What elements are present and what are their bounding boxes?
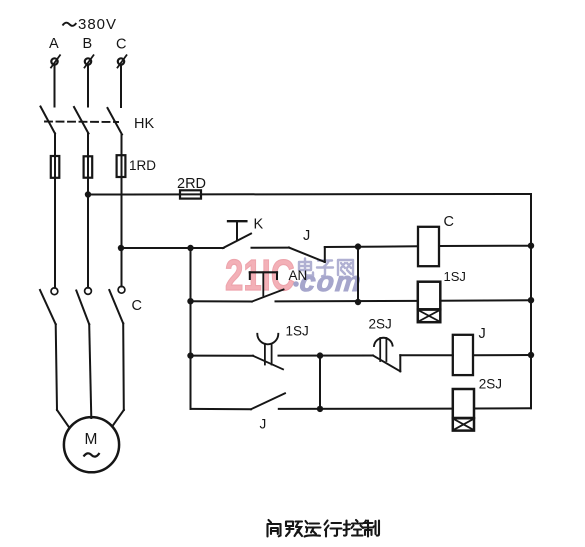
svg-text:J: J (303, 228, 310, 244)
svg-text:HK: HK (134, 116, 154, 132)
svg-text:com: com (298, 266, 363, 297)
svg-text:K: K (254, 217, 264, 233)
svg-text:C: C (132, 298, 142, 314)
svg-text:1RD: 1RD (129, 158, 156, 173)
svg-text:B: B (83, 36, 93, 52)
svg-text:M: M (85, 431, 98, 448)
svg-text:2SJ: 2SJ (479, 377, 502, 392)
svg-text:AN: AN (289, 268, 308, 283)
svg-text:2RD: 2RD (177, 176, 206, 192)
svg-text:21IC: 21IC (225, 252, 295, 301)
svg-text:380V: 380V (78, 16, 117, 33)
svg-text:2SJ: 2SJ (369, 317, 392, 332)
svg-text:1SJ: 1SJ (286, 324, 309, 339)
svg-text:C: C (444, 214, 454, 230)
svg-text:A: A (49, 36, 59, 52)
svg-text:C: C (116, 37, 126, 53)
svg-text:J: J (479, 326, 486, 342)
svg-text:J: J (260, 417, 267, 432)
svg-text:1SJ: 1SJ (444, 269, 466, 284)
